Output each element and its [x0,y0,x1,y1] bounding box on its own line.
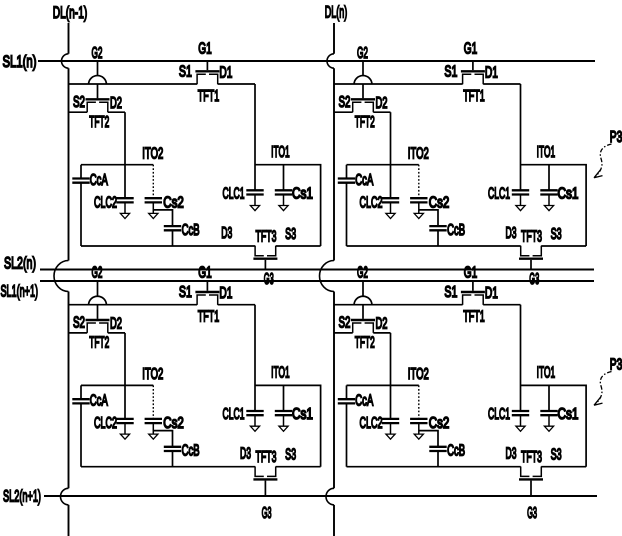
node G1 gate tap R1C1 [206,61,208,70]
transistor TFT2 R1C1 [86,99,110,112]
svg-text:TFT1: TFT1 [198,309,220,326]
wire scan line SL2(n+1) [44,495,597,497]
capacitor CcA R1C1 [72,179,89,183]
svg-text:G3: G3 [262,505,272,522]
svg-text:G2: G2 [357,265,368,282]
capacitor CLC2 R1C1 [116,198,133,218]
wire CcB to storage line R2C1 [172,451,174,467]
svg-text:S3: S3 [551,226,562,243]
transistor TFT3 R1C1 [253,246,277,259]
wire bottom electrode line R2C2 [347,466,587,468]
capacitor CcB R1C2 [429,226,446,230]
svg-text:S3: S3 [285,226,296,243]
svg-text:S1: S1 [179,64,192,81]
node ITO2 electrode outline R2C2 [347,385,419,466]
node ITO2 electrode outline R2C1 [81,385,153,466]
wire TFT2 source lead to DL R1C1 [69,111,88,113]
capacitor CcA R2C2 [338,399,355,403]
svg-text:S3: S3 [285,447,296,464]
svg-text:D3: D3 [221,225,232,242]
svg-text:ITO1: ITO1 [271,365,290,382]
wire TFT1 drain lead R2C2 [483,304,520,306]
capacitor Cs1 R1C1 [275,190,292,210]
capacitor CLC1 R2C1 [246,411,263,431]
wire DL(n-1) hop over SL2(n)/SL1(n+1) [54,261,69,292]
wire ITO2 dashed edge to Cs2 R1C1 [152,165,154,199]
svg-text:Cs1: Cs1 [292,406,313,423]
svg-text:ITO2: ITO2 [408,366,429,383]
wire D2 down to CLC2 R1C1 [124,112,126,198]
capacitor CcB R2C1 [164,447,181,451]
svg-text:Cs1: Cs1 [558,186,579,203]
svg-text:Cs2: Cs2 [163,415,184,432]
wire Cs2 to CcB R1C2 [419,210,438,226]
wire G2 hop over source wire R1C2 [354,76,372,85]
wire TFT2 drain lead R1C1 [108,111,125,113]
capacitor CcA R1C2 [338,179,355,183]
node G2 gate tap R1C1 [97,61,99,98]
svg-text:TFT1: TFT1 [463,309,485,326]
capacitor CLC2 R2C1 [116,419,133,439]
capacitor CcA R2C1 [72,399,89,403]
transistor TFT2 R1C2 [351,99,375,112]
svg-text:ITO1: ITO1 [271,144,290,161]
svg-text:G1: G1 [198,265,212,282]
transistor TFT1 R1C2 [461,71,485,84]
wire TFT1 drain lead R1C2 [483,83,520,85]
svg-text:P3: P3 [610,357,622,374]
wire scan line SL1(n+1) [40,280,594,282]
wire Cs2 to CcB R2C2 [419,431,438,447]
svg-text:G1: G1 [464,41,478,58]
wire Cs1 tap R2C2 [548,385,550,411]
svg-text:D1: D1 [485,65,498,82]
capacitor Cs2 R2C2 [410,419,427,439]
svg-text:S2: S2 [73,94,85,111]
svg-text:CcB: CcB [182,443,200,460]
capacitor Cs2 R1C1 [145,198,162,218]
node ITO1 electrode outline R1C1 [255,165,321,246]
svg-text:CcA: CcA [355,393,373,410]
capacitor Cs1 R2C2 [540,411,557,431]
svg-text:TFT1: TFT1 [198,88,220,105]
svg-text:CcA: CcA [355,172,373,189]
capacitor CcB R2C2 [429,447,446,451]
wire D1 down to ITO1 R1C1 [254,84,256,190]
wire D1 down to ITO1 R1C2 [520,84,522,190]
svg-text:DL(n-1): DL(n-1) [53,3,88,22]
wire data line DL(n-1) vertical [68,23,70,536]
wire DL(n-1) hop over SL2(n+1) [61,488,69,505]
wire D2 down to CLC2 R2C2 [390,333,392,419]
svg-text:G2: G2 [92,265,103,282]
capacitor CLC1 R1C1 [246,190,263,210]
svg-text:SL2(n): SL2(n) [4,254,36,273]
capacitor CLC1 R1C2 [512,190,529,210]
node ITO2 electrode outline R1C1 [81,165,153,246]
wire ITO2 dashed edge to Cs2 R2C2 [418,385,420,419]
svg-text:S1: S1 [444,64,457,81]
wire bottom electrode line R1C2 [347,245,587,247]
wire source line from DL to TFT1 R1C1 [69,83,198,85]
wire DL(n) hop over SL1(n) [327,54,334,68]
svg-text:G3: G3 [264,271,274,288]
svg-text:CLC2: CLC2 [94,195,117,212]
svg-text:S3: S3 [551,447,562,464]
wire bottom electrode line R1C1 [81,245,321,247]
svg-text:CcA: CcA [90,172,108,189]
svg-text:D2: D2 [110,316,122,333]
svg-text:TFT2: TFT2 [89,114,109,131]
wire TFT1 drain lead R1C1 [218,83,255,85]
wire Cs2 to CcB R1C1 [153,210,172,226]
node G3 gate to SL2 R1C2 [530,260,532,270]
wire TFT2 source lead to DL R1C2 [334,111,353,113]
svg-text:CLC2: CLC2 [94,415,117,432]
wire DL(n-1) hop over SL1(n) [62,54,69,68]
wire P3 leader arrow row 2 [596,372,612,405]
node ITO1 electrode outline R1C2 [521,165,587,246]
node G3 gate to SL2 R1C1 [264,260,266,270]
svg-text:S2: S2 [73,315,85,332]
svg-text:TFT2: TFT2 [355,335,375,352]
wire TFT2 drain lead R2C1 [108,332,125,334]
svg-text:G2: G2 [92,45,103,62]
svg-text:TFT2: TFT2 [89,335,109,352]
wire TFT2 drain lead R1C2 [373,111,390,113]
wire Cs1 tap R2C1 [283,385,285,411]
transistor TFT1 R2C2 [461,292,485,305]
wire CcB to storage line R1C1 [172,230,174,246]
svg-text:ITO1: ITO1 [537,144,556,161]
node ITO2 electrode outline R1C2 [347,165,419,246]
svg-text:SL2(n+1): SL2(n+1) [3,487,41,506]
svg-text:CcB: CcB [182,222,200,239]
svg-text:CLC2: CLC2 [360,415,383,432]
wire TFT2 source lead to DL R2C1 [69,332,88,334]
svg-text:G3: G3 [529,271,539,288]
wire CcB to storage line R2C2 [437,451,439,467]
svg-text:CcB: CcB [447,443,465,460]
wire scan line SL2(n) [40,269,594,271]
wire bottom electrode line R2C1 [81,466,321,468]
svg-text:Cs1: Cs1 [558,406,579,423]
svg-text:Cs2: Cs2 [429,195,450,212]
transistor TFT1 R2C1 [195,292,219,305]
wire TFT1 drain lead R2C1 [218,304,255,306]
svg-text:CLC1: CLC1 [223,406,245,423]
svg-text:G1: G1 [464,265,478,282]
svg-text:P3: P3 [610,129,622,146]
wire ITO2 dashed edge to Cs2 R2C1 [152,385,154,419]
wire source line from DL to TFT1 R2C1 [69,304,198,306]
wire CcB to storage line R1C2 [437,230,439,246]
svg-text:D2: D2 [376,95,388,112]
wire G2 hop over source wire R2C2 [354,296,372,305]
svg-text:CLC1: CLC1 [488,186,510,203]
svg-text:SL1(n+1): SL1(n+1) [1,282,39,301]
wire source line from DL to TFT1 R2C2 [334,304,463,306]
node G1 gate tap R1C2 [472,61,474,70]
svg-text:TFT2: TFT2 [355,114,375,131]
wire scan line SL1(n) [38,60,595,62]
wire D1 down to ITO1 R2C2 [520,305,522,411]
wire G2 hop over source wire R1C1 [89,76,107,85]
transistor TFT3 R1C2 [519,246,543,259]
svg-text:TFT1: TFT1 [463,88,485,105]
capacitor CLC1 R2C2 [512,411,529,431]
svg-text:Cs2: Cs2 [429,415,450,432]
capacitor Cs2 R2C1 [145,419,162,439]
node G3 gate to SL2 R2C1 [264,481,266,497]
wire D1 down to ITO1 R2C1 [254,305,256,411]
svg-text:TFT3: TFT3 [521,449,542,466]
svg-text:D1: D1 [485,285,498,302]
capacitor Cs1 R2C1 [275,411,292,431]
svg-text:CcB: CcB [447,222,465,239]
svg-text:D1: D1 [219,285,232,302]
svg-text:G1: G1 [198,41,212,58]
svg-text:CLC1: CLC1 [223,186,245,203]
wire ITO2 dashed edge to Cs2 R1C2 [418,165,420,199]
svg-text:ITO2: ITO2 [142,146,163,163]
transistor TFT3 R2C2 [519,467,543,480]
node G2 gate tap R2C1 [97,281,99,319]
wire Cs1 tap R1C1 [283,165,285,191]
svg-text:S1: S1 [179,284,192,301]
capacitor CLC2 R1C2 [382,198,399,218]
svg-text:D3: D3 [506,225,517,242]
node ITO1 electrode outline R2C1 [255,385,321,466]
wire TFT2 drain lead R2C2 [373,332,390,334]
svg-text:D2: D2 [376,316,388,333]
wire source line from DL to TFT1 R1C2 [334,83,463,85]
node G2 gate tap R2C2 [362,281,364,319]
svg-text:Cs2: Cs2 [163,195,184,212]
capacitor Cs2 R1C2 [410,198,427,218]
wire DL(n) hop over SL2(n)/SL1(n+1) [320,261,335,292]
wire data line DL(n) vertical [333,23,335,536]
svg-text:D3: D3 [506,446,517,463]
svg-text:S2: S2 [339,94,351,111]
svg-text:DL(n): DL(n) [325,3,348,22]
svg-text:ITO1: ITO1 [537,365,556,382]
wire DL(n) hop over SL2(n+1) [326,488,334,505]
capacitor CcB R1C1 [164,226,181,230]
svg-text:SL1(n): SL1(n) [3,52,37,71]
svg-text:ITO2: ITO2 [408,146,429,163]
svg-text:D1: D1 [219,65,232,82]
svg-text:Cs1: Cs1 [292,186,313,203]
svg-text:CLC1: CLC1 [488,406,510,423]
node ITO1 electrode outline R2C2 [521,385,587,466]
wire P3 leader arrow row 1 [596,144,612,177]
svg-text:D2: D2 [110,95,122,112]
svg-text:S1: S1 [444,284,457,301]
svg-text:TFT3: TFT3 [256,229,277,246]
wire Cs1 tap R1C2 [548,165,550,191]
wire G2 hop over source wire R2C1 [89,296,107,305]
svg-text:S2: S2 [339,315,351,332]
capacitor Cs1 R1C2 [540,190,557,210]
svg-text:CcA: CcA [90,393,108,410]
svg-text:ITO2: ITO2 [142,366,163,383]
transistor TFT2 R2C2 [351,320,375,333]
svg-text:TFT3: TFT3 [256,449,277,466]
node G1 gate tap R2C1 [206,281,208,291]
wire D2 down to CLC2 R1C2 [390,112,392,198]
capacitor CLC2 R2C2 [382,419,399,439]
wire Cs2 to CcB R2C1 [153,431,172,447]
svg-text:D3: D3 [240,446,251,463]
node G2 gate tap R1C2 [362,61,364,98]
svg-text:CLC2: CLC2 [360,195,383,212]
svg-text:TFT3: TFT3 [521,229,542,246]
svg-text:G2: G2 [357,45,368,62]
wire D2 down to CLC2 R2C1 [124,333,126,419]
transistor TFT1 R1C1 [195,71,219,84]
svg-text:G3: G3 [527,505,537,522]
node G1 gate tap R2C2 [472,281,474,291]
transistor TFT3 R2C1 [253,467,277,480]
transistor TFT2 R2C1 [86,320,110,333]
node G3 gate to SL2 R2C2 [530,481,532,497]
wire TFT2 source lead to DL R2C2 [334,332,353,334]
